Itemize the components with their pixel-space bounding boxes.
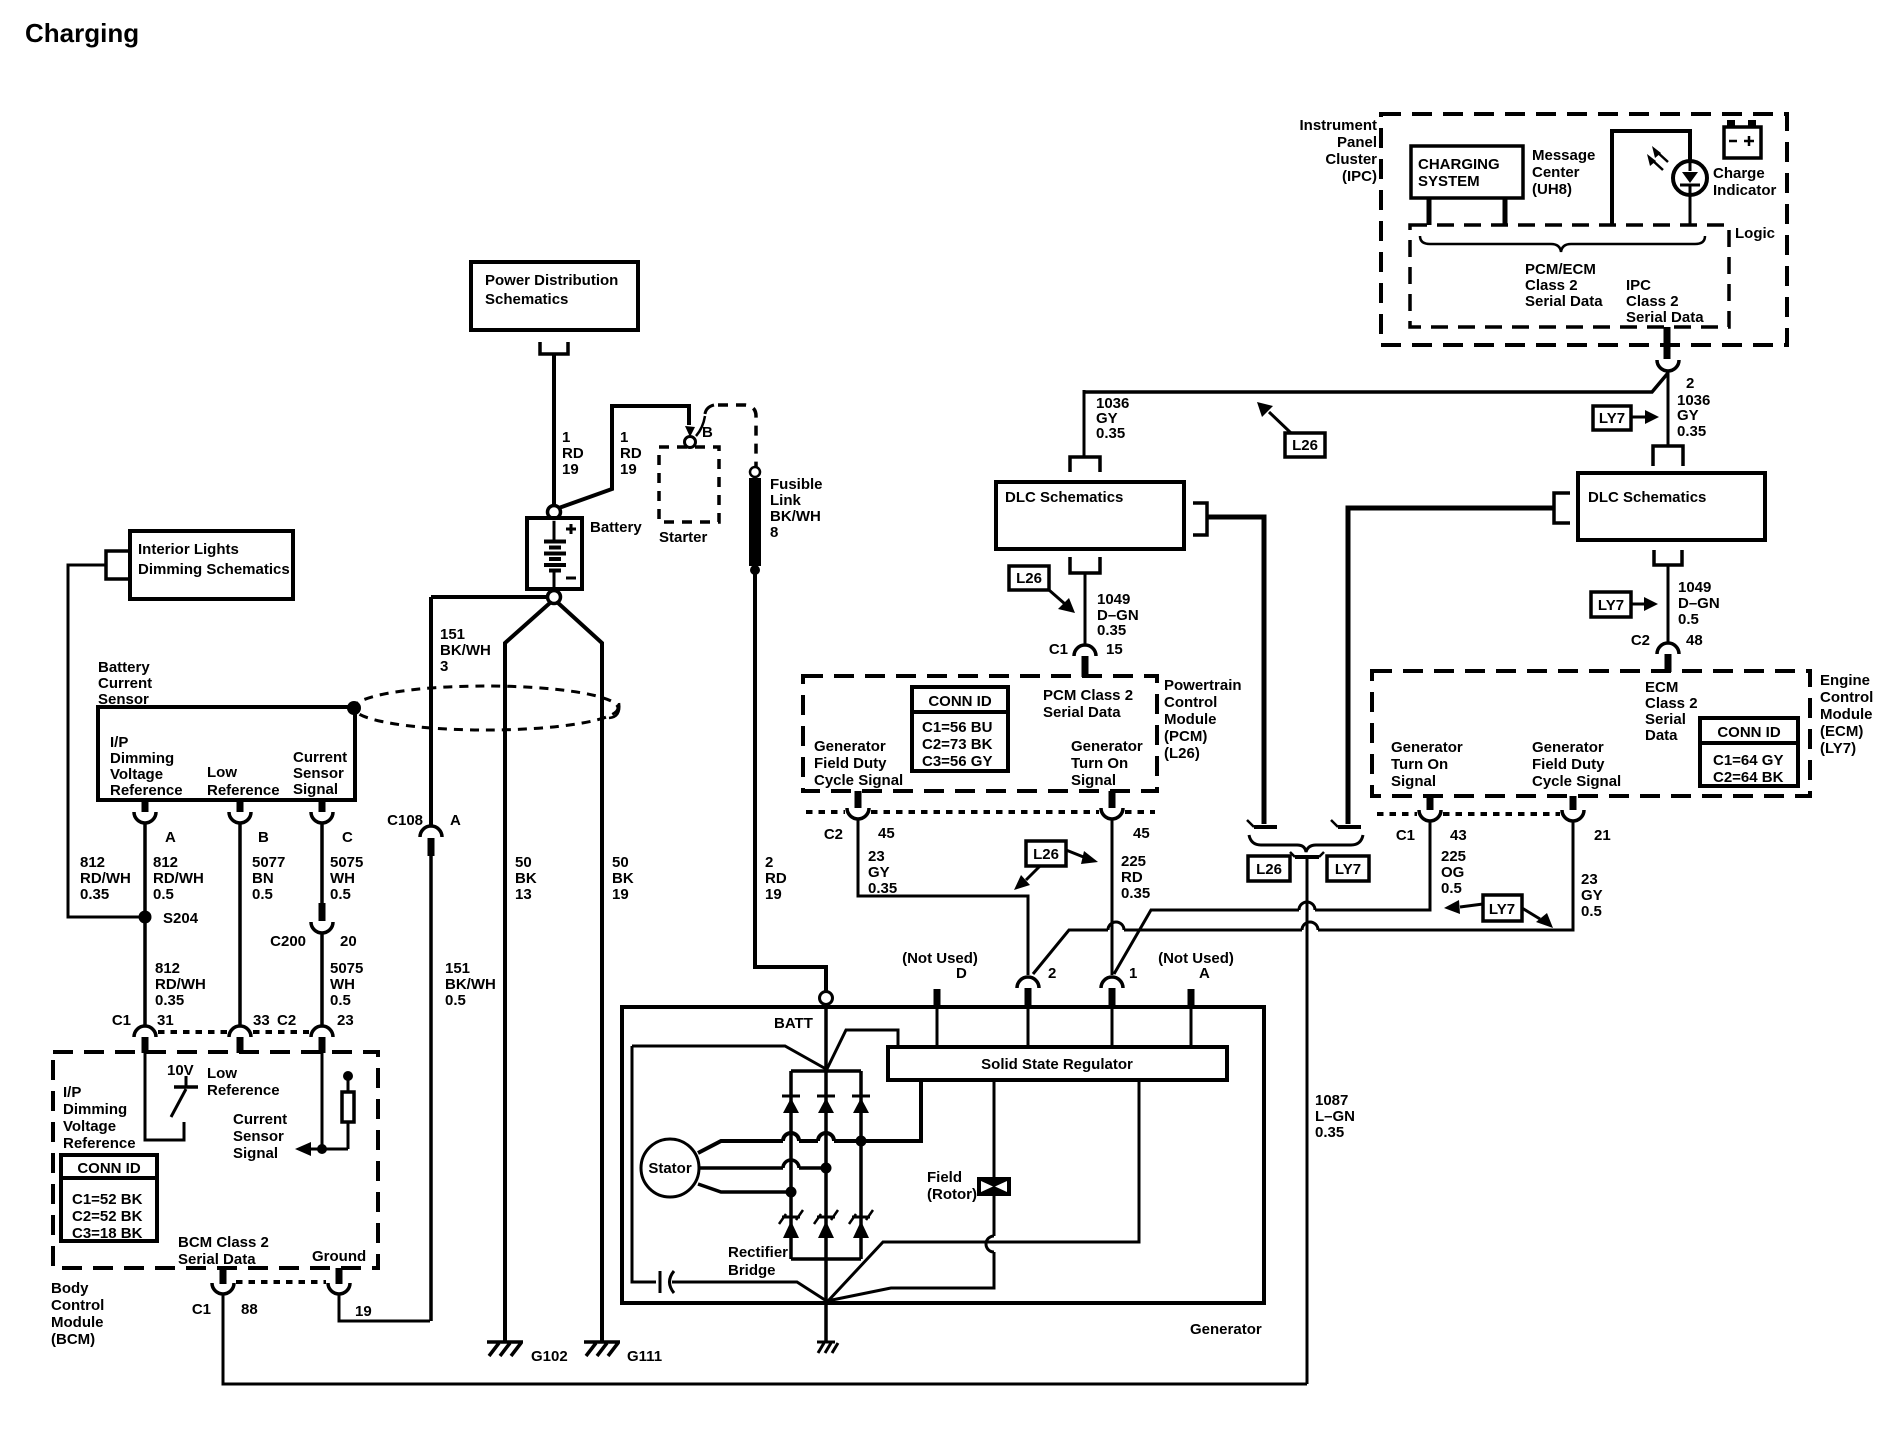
svg-text:5075: 5075: [330, 960, 363, 977]
svg-text:Turn On: Turn On: [1391, 756, 1448, 773]
svg-text:0.35: 0.35: [868, 880, 897, 897]
svg-text:Reference: Reference: [110, 782, 183, 799]
svg-text:Serial Data: Serial Data: [178, 1251, 256, 1268]
svg-text:10V: 10V: [167, 1062, 194, 1079]
svg-text:Powertrain: Powertrain: [1164, 677, 1242, 694]
svg-text:(PCM): (PCM): [1164, 728, 1207, 745]
svg-text:Signal: Signal: [1071, 772, 1116, 789]
svg-text:PCM Class 2: PCM Class 2: [1043, 687, 1133, 704]
svg-text:1049: 1049: [1678, 579, 1711, 596]
svg-text:50: 50: [612, 854, 629, 871]
svg-text:Dimming Schematics: Dimming Schematics: [138, 561, 290, 578]
svg-text:0.35: 0.35: [1677, 423, 1706, 440]
svg-text:GY: GY: [1677, 407, 1699, 424]
svg-text:Voltage: Voltage: [63, 1118, 116, 1135]
svg-text:RD/WH: RD/WH: [153, 870, 204, 887]
svg-text:43: 43: [1450, 827, 1467, 844]
svg-text:L26: L26: [1033, 846, 1059, 863]
svg-text:C2: C2: [1631, 632, 1650, 649]
svg-text:45: 45: [1133, 825, 1150, 842]
svg-text:Module: Module: [1820, 706, 1873, 723]
svg-text:L26: L26: [1292, 437, 1318, 454]
svg-text:88: 88: [241, 1301, 258, 1318]
svg-text:I/P: I/P: [110, 734, 128, 751]
svg-text:0.5: 0.5: [153, 886, 174, 903]
svg-text:C108: C108: [387, 812, 423, 829]
svg-text:(L26): (L26): [1164, 745, 1200, 762]
svg-text:DLC Schematics: DLC Schematics: [1588, 489, 1706, 506]
svg-text:Instrument: Instrument: [1299, 117, 1377, 134]
svg-text:151: 151: [445, 960, 470, 977]
svg-text:Class 2: Class 2: [1525, 277, 1578, 294]
svg-text:20: 20: [340, 933, 357, 950]
svg-text:2: 2: [1686, 375, 1694, 392]
svg-text:Charge: Charge: [1713, 165, 1765, 182]
svg-text:Center: Center: [1532, 164, 1580, 181]
svg-text:Signal: Signal: [233, 1145, 278, 1162]
svg-text:(ECM): (ECM): [1820, 723, 1863, 740]
svg-text:G102: G102: [531, 1348, 568, 1365]
svg-text:1: 1: [620, 429, 628, 446]
svg-text:1087: 1087: [1315, 1092, 1348, 1109]
svg-text:BK: BK: [515, 870, 537, 887]
svg-text:0.5: 0.5: [1581, 903, 1602, 920]
svg-text:Serial Data: Serial Data: [1525, 293, 1603, 310]
svg-text:Sensor: Sensor: [293, 765, 344, 782]
svg-text:0.35: 0.35: [155, 992, 184, 1009]
svg-text:0.5: 0.5: [1441, 880, 1462, 897]
svg-text:Class 2: Class 2: [1645, 695, 1698, 712]
svg-text:LY7: LY7: [1489, 901, 1515, 918]
svg-text:RD: RD: [1121, 869, 1143, 886]
svg-text:812: 812: [155, 960, 180, 977]
svg-text:Sensor: Sensor: [233, 1128, 284, 1145]
svg-text:IPC: IPC: [1626, 277, 1651, 294]
svg-text:BK/WH: BK/WH: [440, 642, 491, 659]
svg-text:19: 19: [765, 886, 782, 903]
svg-text:15: 15: [1106, 641, 1123, 658]
svg-text:0.35: 0.35: [1097, 622, 1126, 639]
svg-text:Control: Control: [1164, 694, 1217, 711]
svg-text:0.5: 0.5: [445, 992, 466, 1009]
svg-text:A: A: [1199, 965, 1210, 982]
svg-text:21: 21: [1594, 827, 1611, 844]
svg-text:BN: BN: [252, 870, 274, 887]
svg-text:Module: Module: [51, 1314, 104, 1331]
svg-text:Cluster: Cluster: [1325, 151, 1377, 168]
svg-text:Ground: Ground: [312, 1248, 366, 1265]
svg-text:Message: Message: [1532, 147, 1595, 164]
svg-text:C1: C1: [112, 1012, 131, 1029]
svg-text:L26: L26: [1016, 570, 1042, 587]
svg-text:RD: RD: [562, 445, 584, 462]
svg-text:Stator: Stator: [648, 1160, 692, 1177]
svg-text:ECM: ECM: [1645, 679, 1678, 696]
svg-text:A: A: [450, 812, 461, 829]
svg-text:23: 23: [1581, 871, 1598, 888]
svg-text:Schematics: Schematics: [485, 291, 568, 308]
svg-text:Control: Control: [51, 1297, 104, 1314]
svg-text:WH: WH: [330, 976, 355, 993]
svg-text:Generator: Generator: [1071, 738, 1143, 755]
svg-text:Turn On: Turn On: [1071, 755, 1128, 772]
svg-text:Link: Link: [770, 492, 801, 509]
svg-text:45: 45: [878, 825, 895, 842]
svg-text:RD: RD: [765, 870, 787, 887]
svg-text:Battery: Battery: [98, 659, 150, 676]
svg-text:0.5: 0.5: [252, 886, 273, 903]
svg-text:Signal: Signal: [293, 781, 338, 798]
svg-text:RD/WH: RD/WH: [80, 870, 131, 887]
svg-text:C1=52 BK: C1=52 BK: [72, 1191, 143, 1208]
svg-text:Generator: Generator: [1190, 1321, 1262, 1338]
svg-text:Cycle Signal: Cycle Signal: [814, 772, 903, 789]
svg-text:Current: Current: [98, 675, 152, 692]
svg-text:Indicator: Indicator: [1713, 182, 1777, 199]
svg-text:C1: C1: [1396, 827, 1415, 844]
svg-text:C1: C1: [192, 1301, 211, 1318]
svg-text:SYSTEM: SYSTEM: [1418, 173, 1480, 190]
svg-text:0.5: 0.5: [330, 886, 351, 903]
svg-text:CONN ID: CONN ID: [77, 1160, 141, 1177]
svg-text:19: 19: [620, 461, 637, 478]
svg-text:Solid State Regulator: Solid State Regulator: [981, 1056, 1133, 1073]
svg-text:2: 2: [765, 854, 773, 871]
svg-text:Field: Field: [927, 1169, 962, 1186]
svg-text:48: 48: [1686, 632, 1703, 649]
svg-text:C2: C2: [824, 826, 843, 843]
svg-text:3: 3: [440, 658, 448, 675]
svg-text:LY7: LY7: [1598, 597, 1624, 614]
svg-text:(Not Used): (Not Used): [1158, 950, 1234, 967]
svg-text:0.35: 0.35: [1096, 425, 1125, 442]
svg-text:C3=18 BK: C3=18 BK: [72, 1225, 143, 1242]
svg-text:225: 225: [1441, 848, 1466, 865]
svg-text:Signal: Signal: [1391, 773, 1436, 790]
svg-text:1: 1: [1129, 965, 1137, 982]
svg-text:BK/WH: BK/WH: [445, 976, 496, 993]
svg-text:(IPC): (IPC): [1342, 168, 1377, 185]
svg-text:L–GN: L–GN: [1315, 1108, 1355, 1125]
svg-text:D–GN: D–GN: [1678, 595, 1720, 612]
svg-text:1049: 1049: [1097, 591, 1130, 608]
svg-text:8: 8: [770, 524, 778, 541]
svg-text:5075: 5075: [330, 854, 363, 871]
svg-text:Logic: Logic: [1735, 225, 1775, 242]
svg-text:C3=56 GY: C3=56 GY: [922, 753, 992, 770]
svg-text:C1=56 BU: C1=56 BU: [922, 719, 992, 736]
svg-text:0.35: 0.35: [80, 886, 109, 903]
svg-text:CONN ID: CONN ID: [928, 693, 992, 710]
svg-text:CHARGING: CHARGING: [1418, 156, 1500, 173]
svg-text:(UH8): (UH8): [1532, 181, 1572, 198]
svg-text:0.35: 0.35: [1315, 1124, 1344, 1141]
svg-text:Serial: Serial: [1645, 711, 1686, 728]
svg-text:Power Distribution: Power Distribution: [485, 272, 618, 289]
svg-text:Field Duty: Field Duty: [814, 755, 887, 772]
svg-text:Interior Lights: Interior Lights: [138, 541, 239, 558]
svg-text:BK: BK: [612, 870, 634, 887]
svg-text:RD: RD: [620, 445, 642, 462]
svg-text:PCM/ECM: PCM/ECM: [1525, 261, 1596, 278]
svg-text:RD/WH: RD/WH: [155, 976, 206, 993]
svg-text:Voltage: Voltage: [110, 766, 163, 783]
svg-text:Field Duty: Field Duty: [1532, 756, 1605, 773]
svg-text:19: 19: [355, 1303, 372, 1320]
svg-text:Reference: Reference: [63, 1135, 136, 1152]
svg-text:GY: GY: [868, 864, 890, 881]
svg-text:DLC Schematics: DLC Schematics: [1005, 489, 1123, 506]
svg-text:WH: WH: [330, 870, 355, 887]
svg-text:G111: G111: [627, 1348, 662, 1365]
svg-text:LY7: LY7: [1599, 410, 1625, 427]
svg-text:Bridge: Bridge: [728, 1262, 776, 1279]
svg-text:C200: C200: [270, 933, 306, 950]
svg-text:(BCM): (BCM): [51, 1331, 95, 1348]
svg-text:Body: Body: [51, 1280, 89, 1297]
svg-text:151: 151: [440, 626, 465, 643]
svg-text:Generator: Generator: [1532, 739, 1604, 756]
svg-text:Low: Low: [207, 764, 237, 781]
svg-text:LY7: LY7: [1335, 861, 1361, 878]
svg-text:Class 2: Class 2: [1626, 293, 1679, 310]
svg-text:23: 23: [868, 848, 885, 865]
svg-text:0.5: 0.5: [1678, 611, 1699, 628]
svg-text:Module: Module: [1164, 711, 1217, 728]
svg-text:Control: Control: [1820, 689, 1873, 706]
svg-text:31: 31: [157, 1012, 174, 1029]
svg-text:C2=52 BK: C2=52 BK: [72, 1208, 143, 1225]
svg-text:Battery: Battery: [590, 519, 642, 536]
svg-text:B: B: [258, 829, 269, 846]
svg-text:Low: Low: [207, 1065, 237, 1082]
svg-text:1: 1: [562, 429, 570, 446]
svg-text:C2=73 BK: C2=73 BK: [922, 736, 993, 753]
svg-text:Reference: Reference: [207, 1082, 280, 1099]
svg-text:Generator: Generator: [814, 738, 886, 755]
svg-text:Current: Current: [233, 1111, 287, 1128]
svg-text:2: 2: [1048, 965, 1056, 982]
svg-text:S204: S204: [163, 910, 199, 927]
svg-text:0.5: 0.5: [330, 992, 351, 1009]
svg-text:812: 812: [80, 854, 105, 871]
svg-text:33: 33: [253, 1012, 270, 1029]
svg-text:Engine: Engine: [1820, 672, 1870, 689]
svg-text:Generator: Generator: [1391, 739, 1463, 756]
svg-text:Serial Data: Serial Data: [1626, 309, 1704, 326]
svg-text:19: 19: [612, 886, 629, 903]
svg-text:B: B: [702, 424, 713, 441]
svg-text:OG: OG: [1441, 864, 1464, 881]
svg-text:C1: C1: [1049, 641, 1068, 658]
svg-text:Starter: Starter: [659, 529, 708, 546]
svg-text:13: 13: [515, 886, 532, 903]
svg-text:Cycle Signal: Cycle Signal: [1532, 773, 1621, 790]
svg-text:23: 23: [337, 1012, 354, 1029]
svg-text:Panel: Panel: [1337, 134, 1377, 151]
svg-text:Fusible: Fusible: [770, 476, 823, 493]
svg-text:225: 225: [1121, 853, 1146, 870]
svg-text:BATT: BATT: [774, 1015, 813, 1032]
svg-text:812: 812: [153, 854, 178, 871]
svg-text:Current: Current: [293, 749, 347, 766]
svg-text:Charging: Charging: [25, 18, 139, 48]
svg-text:C1=64 GY: C1=64 GY: [1713, 752, 1783, 769]
svg-text:D: D: [956, 965, 967, 982]
svg-text:Dimming: Dimming: [63, 1101, 127, 1118]
svg-text:BK/WH: BK/WH: [770, 508, 821, 525]
svg-text:BCM Class 2: BCM Class 2: [178, 1234, 269, 1251]
svg-text:50: 50: [515, 854, 532, 871]
svg-text:Data: Data: [1645, 727, 1678, 744]
svg-text:0.35: 0.35: [1121, 885, 1150, 902]
svg-text:(Rotor): (Rotor): [927, 1186, 977, 1203]
svg-text:C: C: [342, 829, 353, 846]
svg-text:Serial Data: Serial Data: [1043, 704, 1121, 721]
svg-text:(LY7): (LY7): [1820, 740, 1856, 757]
svg-text:A: A: [165, 829, 176, 846]
svg-text:19: 19: [562, 461, 579, 478]
svg-text:5077: 5077: [252, 854, 285, 871]
svg-text:C2=64 BK: C2=64 BK: [1713, 769, 1784, 786]
svg-text:Rectifier: Rectifier: [728, 1244, 788, 1261]
svg-text:GY: GY: [1581, 887, 1603, 904]
svg-text:CONN ID: CONN ID: [1717, 724, 1781, 741]
svg-text:Reference: Reference: [207, 782, 280, 799]
svg-text:C2: C2: [277, 1012, 296, 1029]
svg-text:Dimming: Dimming: [110, 750, 174, 767]
svg-text:I/P: I/P: [63, 1084, 81, 1101]
svg-text:L26: L26: [1256, 861, 1282, 878]
